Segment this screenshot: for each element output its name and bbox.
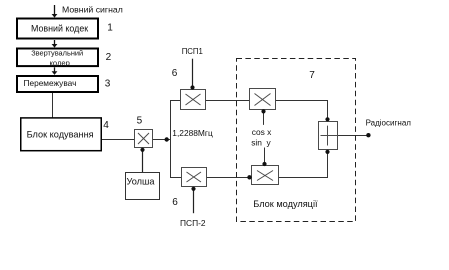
svg-text:Мовний кодек: Мовний кодек: [31, 24, 88, 34]
svg-text:Блок модуляції: Блок модуляції: [253, 199, 318, 209]
svg-text:ПСП1: ПСП1: [182, 47, 203, 56]
svg-text:6: 6: [172, 68, 178, 79]
svg-text:4: 4: [103, 120, 109, 131]
svg-text:1: 1: [107, 23, 113, 34]
svg-text:Перемежувач: Перемежувач: [24, 78, 77, 88]
svg-text:Звертувальний: Звертувальний: [31, 49, 83, 58]
svg-text:sin y: sin y: [251, 138, 271, 148]
svg-text:Радіосигнал: Радіосигнал: [366, 118, 412, 127]
svg-text:Уолша: Уолша: [127, 177, 156, 187]
svg-text:1,2288Мгц: 1,2288Мгц: [172, 128, 213, 138]
svg-text:2: 2: [106, 52, 112, 63]
svg-text:5: 5: [137, 116, 143, 127]
svg-text:3: 3: [105, 79, 111, 90]
svg-text:Блок кодування: Блок кодування: [27, 129, 94, 139]
svg-text:7: 7: [309, 70, 315, 81]
svg-text:6: 6: [172, 197, 178, 208]
svg-text:ПСП-2: ПСП-2: [180, 218, 206, 228]
svg-text:кодер: кодер: [50, 58, 70, 67]
svg-text:Мовний сигнал: Мовний сигнал: [62, 4, 123, 14]
svg-text:cos x: cos x: [252, 127, 272, 137]
